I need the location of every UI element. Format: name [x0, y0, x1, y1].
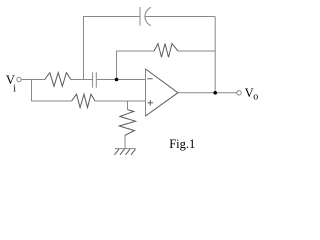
svg-text:V: V	[245, 86, 254, 100]
svg-text:i: i	[13, 84, 16, 95]
svg-text:Fig.1: Fig.1	[169, 137, 195, 151]
svg-text:o: o	[253, 92, 258, 103]
